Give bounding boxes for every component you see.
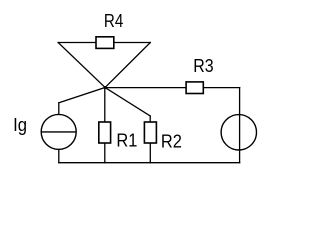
node A junction: [104, 86, 107, 89]
wire right vertical through source: [239, 88, 241, 163]
current source Ig: [13, 114, 76, 149]
svg-text:R1: R1: [116, 131, 137, 151]
resistor R1: [99, 122, 138, 151]
wire bottom rail: [59, 162, 240, 164]
wire R3 to right corner: [203, 87, 239, 89]
wire node A down to R1: [104, 88, 106, 123]
resistor R4: [96, 11, 123, 48]
resistor R2: [144, 122, 182, 151]
wire R2 stub vertical: [149, 116, 151, 122]
wire R2 bottom to rail: [149, 143, 151, 163]
wire R4 right horizontal: [114, 42, 151, 44]
wire diagonal node A to R2 stub: [105, 88, 150, 117]
resistor R3: [186, 56, 213, 93]
wire diagonal left end of R4 to node A: [58, 43, 105, 88]
wire R1 bottom to rail: [104, 143, 106, 163]
wire R4 left horizontal: [58, 42, 96, 44]
svg-text:Ig: Ig: [13, 115, 27, 135]
svg-text:R4: R4: [104, 11, 123, 31]
current source right (unlabeled): [221, 115, 256, 150]
svg-text:R2: R2: [161, 131, 182, 151]
wire Ig source bottom to rail: [58, 149, 60, 162]
wire Ig corner down to source top: [58, 103, 60, 115]
wire node A to Ig corner: [59, 88, 105, 103]
wire node A to R3: [105, 87, 186, 89]
svg-text:R3: R3: [193, 56, 213, 76]
wire diagonal right end of R4 to node A: [105, 43, 150, 88]
